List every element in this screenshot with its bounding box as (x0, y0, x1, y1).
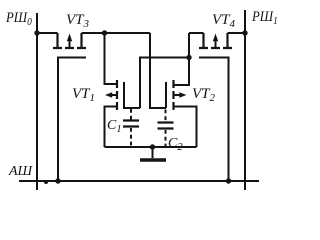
junction dot RSh0 node (34, 30, 39, 35)
transistor VT1 substrate arrow (110, 94, 116, 96)
transistor VT1 channel dashes (116, 80, 118, 110)
svg-text:VT4: VT4 (212, 12, 236, 30)
wire node B to VT4 and VT2 drain (175, 33, 190, 85)
transistor VT4 substrate arrow (215, 38, 217, 47)
junction dot node B (186, 55, 191, 60)
junction dot ground node (150, 144, 155, 149)
capacitor C2 top dashed lead (165, 110, 167, 123)
ground lead (152, 147, 154, 158)
ground bar (140, 158, 166, 161)
junction dot VT4 gate on ASh (226, 178, 231, 183)
transistor VT2 channel dashes (172, 80, 174, 110)
transistor VT1 drain lead (105, 33, 117, 84)
svg-text:С1: С1 (107, 118, 122, 135)
transistor VT4 right electrode lead (226, 33, 228, 47)
transistor VT3 channel dashes (53, 47, 86, 49)
bit line RSh0 (36, 13, 38, 190)
bottom common wire (105, 146, 197, 148)
bit line RSh1 (244, 10, 246, 190)
svg-text:АШ: АШ (8, 164, 34, 179)
transistor VT4 left electrode lead (202, 33, 204, 47)
transistor VT3 substrate arrow (69, 38, 71, 47)
svg-text:РШ1: РШ1 (251, 9, 278, 27)
word line ASh (19, 180, 259, 182)
transistor VT2 substrate arrow (175, 94, 182, 96)
transistor VT2 gate (165, 82, 167, 108)
capacitor C1 top dashed lead (130, 109, 132, 120)
svg-text:VT2: VT2 (192, 86, 216, 104)
svg-text:РШ0: РШ0 (5, 10, 32, 28)
capacitor C1 plates (123, 121, 139, 127)
wire VT4 to RSh1 (228, 32, 246, 34)
transistor VT3 right electrode lead (80, 33, 82, 47)
capacitor C2 plates (158, 123, 174, 129)
transistor VT3 left electrode lead (56, 33, 58, 47)
svg-text:VT1: VT1 (72, 86, 95, 104)
small dot on ASh (44, 180, 48, 184)
wire RSh0 to VT3 (37, 32, 58, 34)
transistor VT3 gate and lead to word line (58, 58, 86, 182)
wire node A top (82, 32, 151, 34)
transistor VT4 channel dashes (199, 47, 232, 49)
transistor VT2 source lead (175, 107, 197, 148)
junction dot VT3 gate on ASh (55, 178, 60, 183)
svg-text:С2: С2 (168, 136, 183, 153)
capacitor C2 bottom dashed lead (165, 130, 167, 147)
transistor VT1 gate (124, 82, 140, 108)
junction dot node A (102, 30, 107, 35)
svg-text:VT3: VT3 (66, 12, 90, 30)
transistor VT1 source lead (105, 107, 117, 148)
junction dot RSh1 node (242, 30, 247, 35)
capacitor C1 bottom dashed lead (130, 128, 132, 147)
wire node B vertical and horizontal (140, 58, 189, 109)
transistor VT4 gate and lead to word line (199, 58, 229, 182)
wire node A down to VT2 gate (150, 33, 166, 108)
